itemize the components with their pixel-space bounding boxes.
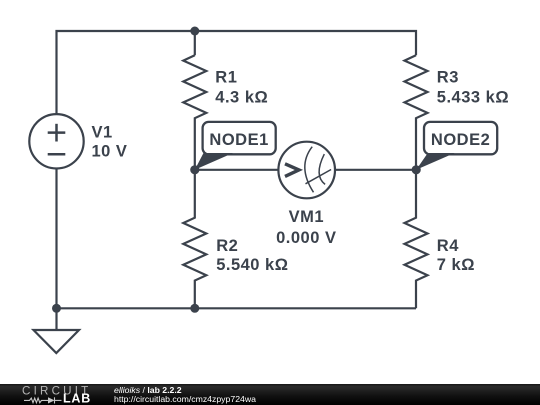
svg-text:10 V: 10 V: [92, 143, 128, 161]
svg-text:LAB: LAB: [63, 392, 91, 405]
svg-text:V1: V1: [92, 124, 113, 142]
svg-text:7 kΩ: 7 kΩ: [437, 256, 475, 274]
svg-text:NODE2: NODE2: [431, 131, 490, 149]
svg-text:R4: R4: [437, 237, 459, 255]
svg-text:0.000 V: 0.000 V: [276, 229, 336, 247]
svg-text:NODE1: NODE1: [209, 131, 268, 149]
svg-text:R1: R1: [215, 69, 237, 87]
svg-text:5.433 kΩ: 5.433 kΩ: [437, 89, 509, 107]
svg-text:5.540 kΩ: 5.540 kΩ: [216, 256, 288, 274]
svg-text:R3: R3: [437, 69, 459, 87]
svg-text:VM1: VM1: [289, 208, 324, 226]
svg-text:4.3 kΩ: 4.3 kΩ: [215, 89, 268, 107]
svg-text:R2: R2: [216, 237, 238, 255]
